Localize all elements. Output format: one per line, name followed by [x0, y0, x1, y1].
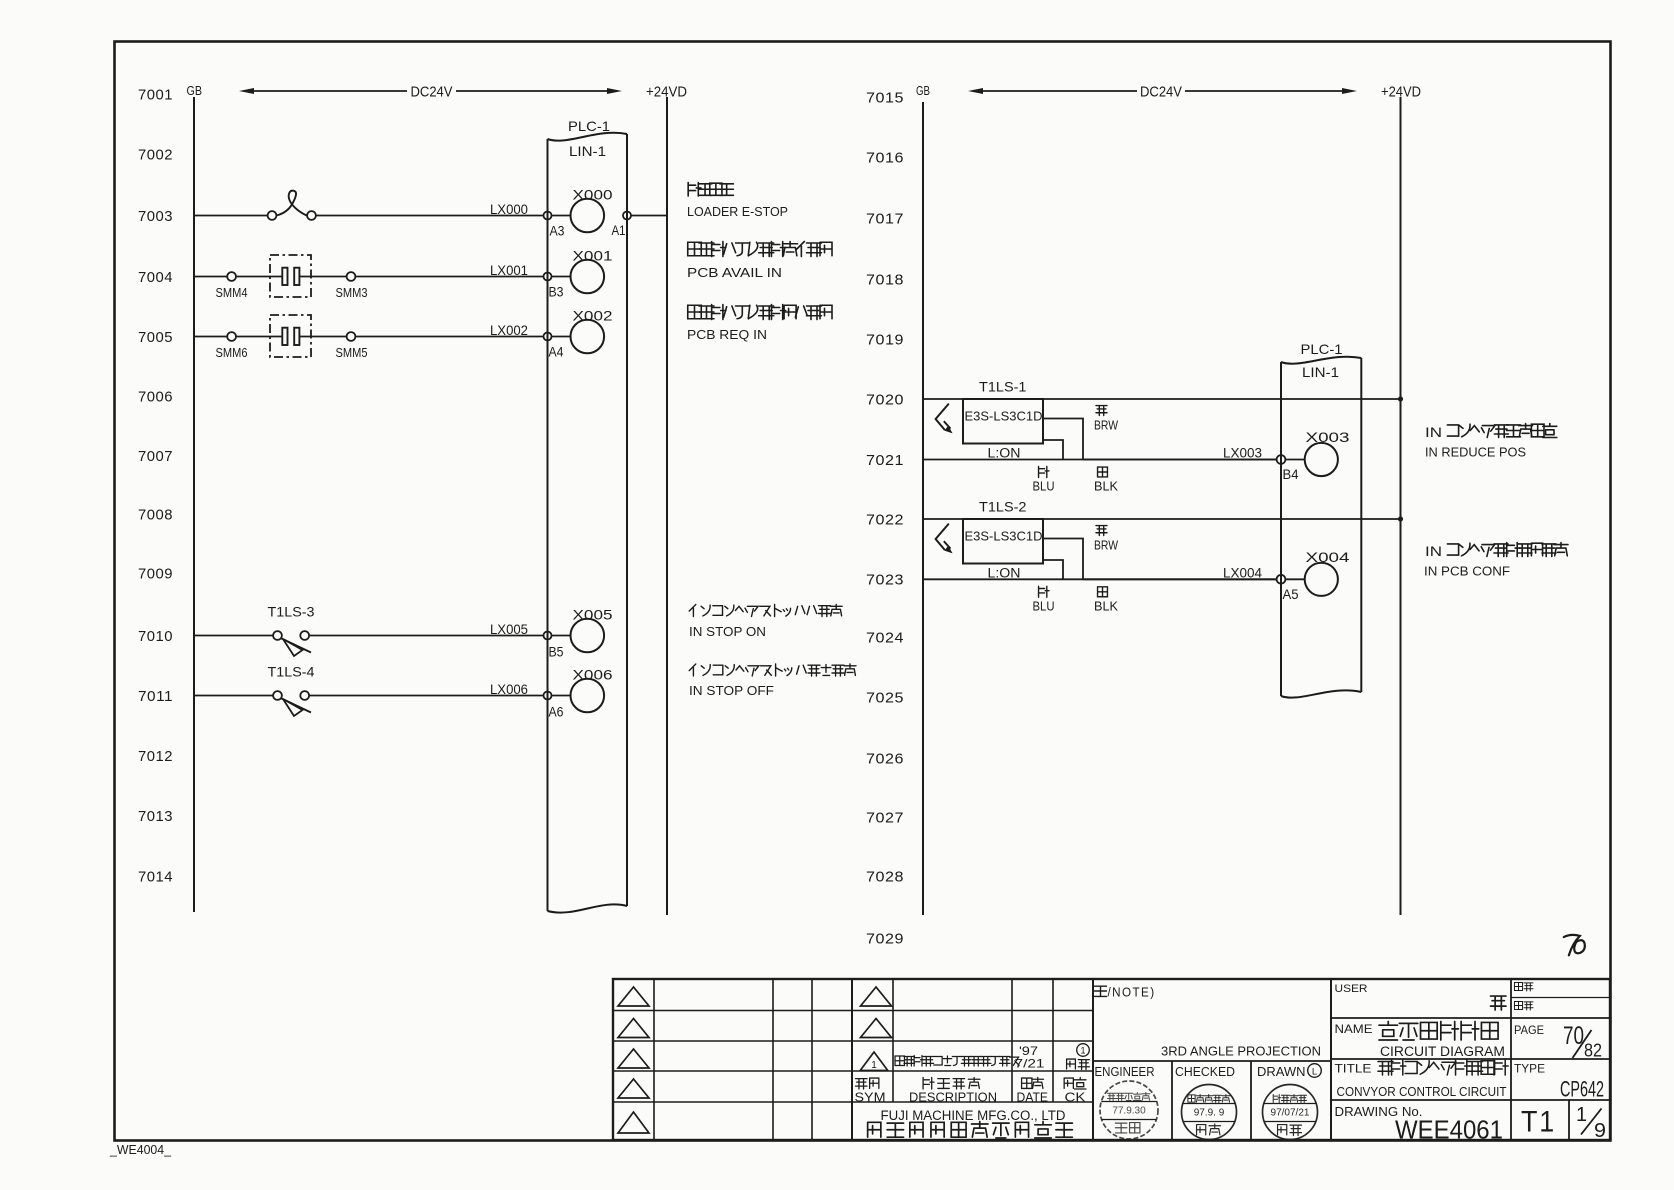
svg-text:LX002: LX002	[490, 323, 528, 338]
svg-text:IN STOP ON: IN STOP ON	[689, 624, 766, 639]
svg-text:BLU: BLU	[1033, 480, 1055, 494]
svg-text:T1LS-4: T1LS-4	[268, 664, 315, 680]
svg-text:7001: 7001	[138, 86, 173, 103]
svg-text:LIN-1: LIN-1	[1302, 364, 1339, 380]
svg-text:97.9. 9: 97.9. 9	[1194, 1108, 1225, 1119]
svg-text:LIN-1: LIN-1	[569, 143, 606, 159]
svg-text:DC24V: DC24V	[411, 84, 453, 101]
svg-text:L:ON: L:ON	[988, 566, 1021, 581]
svg-text:7025: 7025	[866, 689, 904, 706]
svg-text:7004: 7004	[138, 269, 173, 286]
svg-text:1: 1	[1080, 1046, 1085, 1056]
svg-text:A5: A5	[1283, 586, 1299, 602]
svg-text:+24VD: +24VD	[1381, 84, 1421, 101]
svg-text:ENGINEER: ENGINEER	[1095, 1065, 1155, 1079]
svg-text:1: 1	[871, 1060, 877, 1071]
svg-text:SMM6: SMM6	[216, 346, 248, 360]
svg-text:IN REDUCE POS: IN REDUCE POS	[1425, 445, 1526, 460]
svg-text:SYM: SYM	[855, 1090, 886, 1105]
svg-text:IN: IN	[1425, 424, 1442, 440]
svg-text:LX006: LX006	[490, 682, 528, 697]
svg-text:7005: 7005	[138, 329, 173, 346]
svg-text:7007: 7007	[138, 448, 173, 465]
svg-text:PCB REQ IN: PCB REQ IN	[687, 327, 767, 342]
svg-text:BRW: BRW	[1094, 539, 1118, 553]
svg-text:LX004: LX004	[1223, 565, 1262, 580]
svg-text:7024: 7024	[866, 629, 904, 646]
svg-text:CONVYOR CONTROL CIRCUIT: CONVYOR CONTROL CIRCUIT	[1337, 1084, 1507, 1099]
svg-text:3RD ANGLE PROJECTION: 3RD ANGLE PROJECTION	[1161, 1044, 1321, 1059]
svg-text:PLC-1: PLC-1	[568, 118, 610, 134]
svg-text:IN STOP OFF: IN STOP OFF	[689, 683, 774, 698]
svg-text:SMM4: SMM4	[216, 286, 248, 300]
svg-text:DC24V: DC24V	[1140, 84, 1182, 101]
svg-text:DRAWN: DRAWN	[1257, 1065, 1306, 1079]
svg-text:B3: B3	[549, 284, 564, 300]
svg-text:TITLE: TITLE	[1335, 1062, 1372, 1076]
svg-text:9: 9	[1594, 1120, 1606, 1142]
svg-text:82: 82	[1584, 1041, 1602, 1061]
svg-text:LX001: LX001	[490, 263, 528, 278]
svg-text:BRW: BRW	[1094, 419, 1118, 433]
svg-text:7006: 7006	[138, 388, 173, 405]
svg-text:DESCRIPTION: DESCRIPTION	[909, 1090, 997, 1105]
svg-text:X001: X001	[573, 248, 613, 264]
svg-text:X000: X000	[573, 187, 613, 203]
svg-text:B4: B4	[1283, 466, 1299, 482]
svg-text:CK: CK	[1065, 1090, 1086, 1105]
svg-text:/NOTE): /NOTE)	[1108, 986, 1156, 1000]
svg-text:97/07/21: 97/07/21	[1271, 1108, 1310, 1119]
svg-text:7012: 7012	[138, 748, 173, 765]
svg-text:PAGE: PAGE	[1514, 1023, 1544, 1037]
svg-text:E3S-LS3C1D: E3S-LS3C1D	[965, 409, 1043, 424]
svg-text:SMM3: SMM3	[336, 286, 368, 300]
svg-text:X002: X002	[573, 308, 613, 324]
svg-text:LX005: LX005	[490, 622, 528, 637]
svg-text:LX000: LX000	[490, 202, 528, 217]
svg-text:E3S-LS3C1D: E3S-LS3C1D	[965, 529, 1043, 544]
svg-text:X005: X005	[573, 607, 613, 623]
svg-text:CIRCUIT DIAGRAM: CIRCUIT DIAGRAM	[1380, 1044, 1505, 1059]
svg-text:WEE4061: WEE4061	[1395, 1115, 1503, 1145]
svg-text:GB: GB	[916, 83, 930, 98]
svg-text:7022: 7022	[866, 511, 904, 528]
svg-text:7021: 7021	[866, 452, 904, 469]
svg-text:T1LS-1: T1LS-1	[979, 379, 1027, 395]
svg-text:7020: 7020	[866, 391, 904, 408]
svg-text:7003: 7003	[138, 208, 173, 225]
svg-text:USER: USER	[1335, 983, 1368, 995]
svg-text:NAME: NAME	[1335, 1022, 1373, 1036]
svg-text:7027: 7027	[866, 809, 904, 826]
svg-text:7026: 7026	[866, 750, 904, 767]
svg-text:X004: X004	[1306, 549, 1350, 565]
svg-text:BLK: BLK	[1094, 599, 1119, 613]
svg-text:TYPE: TYPE	[1514, 1062, 1545, 1076]
svg-text:CP642: CP642	[1560, 1077, 1604, 1102]
svg-text:X003: X003	[1306, 429, 1350, 445]
svg-text:X006: X006	[573, 667, 613, 683]
svg-text:7/21: 7/21	[1015, 1057, 1045, 1071]
svg-text:DATE: DATE	[1017, 1090, 1049, 1105]
svg-text:A1: A1	[612, 222, 626, 238]
svg-text:IN PCB CONF: IN PCB CONF	[1424, 564, 1510, 579]
svg-text:7015: 7015	[866, 89, 904, 106]
svg-text:77.9.30: 77.9.30	[1112, 1106, 1146, 1117]
svg-text:A3: A3	[550, 223, 565, 239]
svg-text:PLC-1: PLC-1	[1301, 341, 1343, 357]
svg-text:7010: 7010	[138, 628, 173, 645]
svg-text:PCB AVAIL IN: PCB AVAIL IN	[687, 265, 782, 280]
svg-text:1: 1	[1576, 1104, 1587, 1126]
svg-text:_WE4004_: _WE4004_	[109, 1143, 172, 1157]
svg-text:L: L	[1312, 1067, 1317, 1078]
svg-text:IN: IN	[1425, 543, 1442, 559]
svg-text:T1LS-2: T1LS-2	[979, 499, 1027, 515]
svg-text:7016: 7016	[866, 149, 904, 166]
svg-text:SMM5: SMM5	[336, 346, 368, 360]
svg-text:7013: 7013	[138, 808, 173, 825]
svg-text:7011: 7011	[138, 688, 173, 705]
svg-text:LOADER E-STOP: LOADER E-STOP	[687, 204, 788, 219]
svg-text:T1LS-3: T1LS-3	[268, 604, 315, 620]
svg-text:7029: 7029	[866, 930, 904, 947]
svg-text:7017: 7017	[866, 210, 904, 227]
svg-text:BLK: BLK	[1094, 480, 1119, 494]
svg-text:7008: 7008	[138, 506, 173, 523]
svg-text:7019: 7019	[866, 331, 904, 348]
svg-text:BLU: BLU	[1033, 599, 1055, 613]
svg-text:B5: B5	[549, 644, 564, 660]
svg-text:A4: A4	[549, 344, 564, 360]
svg-text:GB: GB	[187, 83, 203, 98]
svg-text:A6: A6	[549, 704, 564, 720]
svg-text:+24VD: +24VD	[646, 84, 687, 101]
svg-text:7002: 7002	[138, 146, 173, 163]
svg-text:7028: 7028	[866, 868, 904, 885]
svg-text:L:ON: L:ON	[988, 446, 1021, 461]
svg-text:T1: T1	[1521, 1106, 1556, 1139]
svg-text:CHECKED: CHECKED	[1175, 1065, 1235, 1079]
svg-text:7023: 7023	[866, 572, 904, 589]
svg-text:7009: 7009	[138, 565, 173, 582]
svg-text:7014: 7014	[138, 868, 173, 885]
svg-text:LX003: LX003	[1223, 446, 1262, 461]
svg-text:FUJI MACHINE MFG.CO., LTD: FUJI MACHINE MFG.CO., LTD	[881, 1108, 1066, 1123]
svg-text:7018: 7018	[866, 271, 904, 288]
